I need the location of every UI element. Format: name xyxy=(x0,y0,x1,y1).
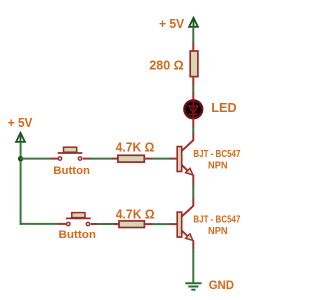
wire: R2 to Q1 base xyxy=(144,158,177,160)
svg-text:Button: Button xyxy=(59,229,97,241)
transistor Q1 BJT BC547 NPN xyxy=(177,140,193,175)
pushbutton S2 xyxy=(66,213,91,226)
wire: R3 to Q2 base xyxy=(144,223,177,225)
transistor Q2 BJT BC547 NPN xyxy=(177,206,193,241)
wire: button S2 to R3 xyxy=(91,223,120,225)
svg-text:NPN: NPN xyxy=(208,160,228,171)
pushbutton S1 xyxy=(58,147,83,160)
LED D1 xyxy=(184,100,202,118)
wire: +5V to R1 top xyxy=(192,27,194,52)
wire: button S1 to R2 xyxy=(83,158,118,160)
svg-text:Button: Button xyxy=(53,165,90,177)
wire: junction to button S1 xyxy=(21,158,59,160)
svg-text:+ 5V: + 5V xyxy=(8,116,33,130)
svg-text:4.7K Ω: 4.7K Ω xyxy=(116,207,155,221)
svg-text:280 Ω: 280 Ω xyxy=(149,59,183,73)
resistor R3 4.7KΩ xyxy=(119,221,144,228)
wire: left rail corner to button S2 xyxy=(20,223,66,225)
power +5V symbol (left rail) xyxy=(16,133,25,143)
svg-text:NPN: NPN xyxy=(208,226,228,237)
resistor R1 280Ω xyxy=(190,51,198,77)
wire: Q1 emitter to Q2 collector xyxy=(192,175,194,207)
wire: R1 bottom to LED anode xyxy=(192,77,194,101)
wire: LED cathode to Q1 collector xyxy=(192,119,194,142)
svg-text:4.7K Ω: 4.7K Ω xyxy=(116,141,155,155)
wire: left rail vertical xyxy=(20,142,22,224)
power +5V symbol (right rail) xyxy=(189,18,198,28)
resistor R2 4.7KΩ xyxy=(118,155,144,162)
svg-text:BJT - BC547: BJT - BC547 xyxy=(193,215,240,226)
wire: Q2 emitter to ground xyxy=(192,240,194,283)
svg-text:GND: GND xyxy=(209,278,235,292)
svg-text:LED: LED xyxy=(211,100,236,115)
svg-text:BJT - BC547: BJT - BC547 xyxy=(193,149,240,160)
junction node (left rail / button 1 branch) xyxy=(18,156,23,161)
svg-text:+ 5V: + 5V xyxy=(159,17,185,31)
ground symbol xyxy=(185,283,201,289)
